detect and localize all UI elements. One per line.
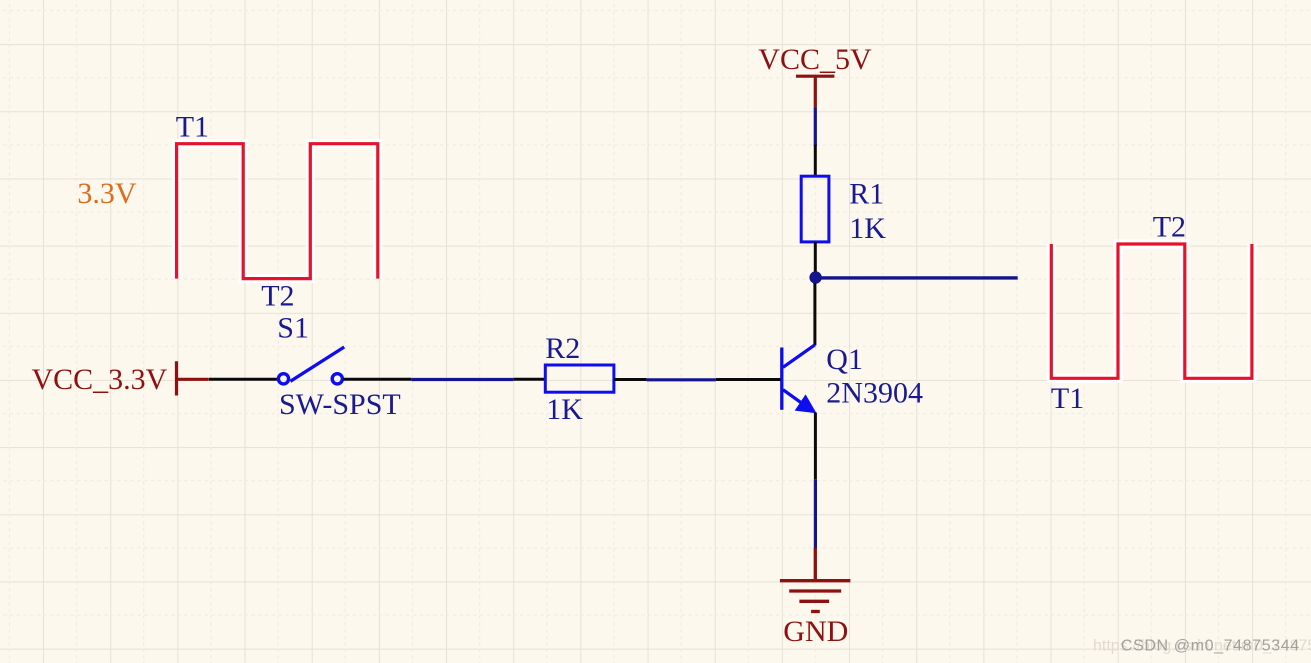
pin S1 right [343,378,411,381]
svg-text:T1: T1 [176,111,209,144]
pin S1 left [209,378,278,381]
waveform output halo [1051,244,1252,378]
wire emitter to GND [814,479,817,549]
waveform input square wave [177,144,378,279]
pin Q1 base [716,378,781,381]
svg-text:T2: T2 [261,280,294,313]
resistor R2 [545,365,614,392]
svg-text:R2: R2 [545,332,580,365]
junction node dot [809,271,821,283]
transistor Q1 [782,345,815,411]
waveform output square wave [1051,244,1252,378]
wire R2 to Q1 base [647,378,716,381]
switch S1 [278,347,344,384]
svg-text:R1: R1 [849,177,884,210]
pin R2 right [614,378,647,381]
svg-text:T1: T1 [1051,382,1084,415]
power port VCC_3.3V bar symbol [177,361,209,395]
svg-text:GND: GND [783,615,848,648]
waveform input halo [177,144,378,279]
svg-text:T2: T2 [1153,211,1186,244]
svg-text:Q1: Q1 [826,343,863,376]
svg-text:2N3904: 2N3904 [826,376,923,409]
svg-text:VCC_3.3V: VCC_3.3V [32,363,168,396]
transistor Q1 emitter arrow [795,394,817,413]
pin R2 left [514,378,546,381]
pin Q1 emitter [814,413,817,480]
ground GND symbol [780,548,851,612]
svg-text:1K: 1K [849,212,886,245]
svg-text:S1: S1 [277,312,309,345]
svg-text:CSDN @m0_74875344: CSDN @m0_74875344 [1121,638,1300,655]
svg-text:3.3V: 3.3V [77,177,136,210]
pin R1 top [814,145,817,177]
power port VCC_5V bar symbol [796,76,834,109]
wire S1 to R2 [411,378,513,381]
svg-text:SW-SPST: SW-SPST [279,388,401,421]
wire VCC_5V to R1 [814,108,817,146]
svg-text:1K: 1K [546,393,583,426]
pin R1 bottom [814,242,817,273]
svg-text:VCC_5V: VCC_5V [758,43,872,76]
wire node to T2 output [815,276,1017,279]
pin Q1 collector [813,283,816,345]
resistor R1 [801,176,829,242]
